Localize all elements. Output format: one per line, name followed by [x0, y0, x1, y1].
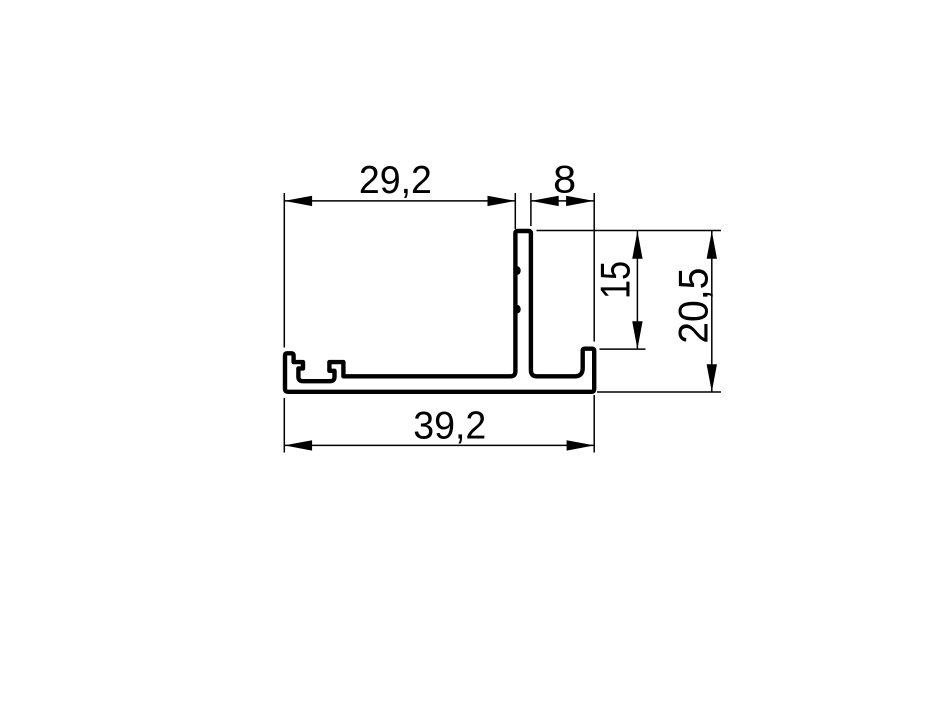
arrowhead 29,2 left [284, 196, 312, 206]
extension line at leg top (horizontal) [537, 230, 722, 232]
dimension line 8 [531, 200, 594, 202]
extension line at base bottom (horizontal) [597, 391, 721, 393]
dimension line 39,2 [284, 444, 594, 446]
dimension line 29,2 [284, 200, 515, 202]
arrowhead 15 bottom [632, 321, 642, 349]
extension line at right outer face (upper segment) [593, 193, 595, 342]
leg serration bump lower [515, 305, 521, 313]
extension line at leg right face [530, 193, 532, 226]
arrowhead 39,2 right [567, 440, 595, 450]
svg-text:39,2: 39,2 [413, 405, 486, 448]
arrowhead 20,5 bottom [707, 364, 717, 392]
dimension line 15 [636, 231, 638, 349]
arrowhead 15 top [632, 231, 642, 259]
profile outline (aluminium extrusion cross-section with accessory groove, glazing leg and end lip) [285, 231, 594, 392]
arrowhead 8 right [566, 196, 594, 206]
arrowhead 29,2 right [488, 196, 516, 206]
extension line at left outer face (lower segment) [283, 398, 285, 453]
extension line at leg left face [514, 193, 516, 229]
svg-text:8: 8 [553, 159, 576, 202]
leg serration bump upper [515, 266, 521, 274]
arrowhead 39,2 left [284, 440, 312, 450]
arrowhead 20,5 top [707, 231, 717, 259]
arrowhead 8 left [531, 196, 559, 206]
extension line at lip top (horizontal) [600, 348, 646, 350]
svg-text:20,5: 20,5 [670, 268, 717, 344]
dimension line 20,5 [711, 231, 713, 392]
svg-text:29,2: 29,2 [359, 159, 432, 202]
svg-text:15: 15 [592, 261, 639, 299]
extension line at left outer face (upper segment) [283, 193, 285, 348]
extension line at right outer face (lower segment) [593, 395, 595, 453]
